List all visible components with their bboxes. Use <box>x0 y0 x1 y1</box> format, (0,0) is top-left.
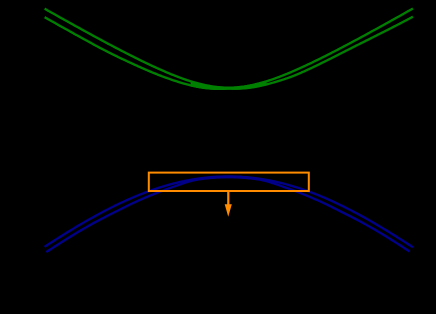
conduction band vertex fused region <box>191 80 267 90</box>
arrow shaft <box>227 192 229 207</box>
valence band outer branch (blue) <box>45 176 413 247</box>
highlight rectangle <box>149 173 309 191</box>
arrow head <box>225 204 232 217</box>
conduction band inner branch (green) <box>45 17 413 89</box>
conduction band outer branch (green) <box>45 9 413 88</box>
valence band inner branch (blue) <box>46 177 409 252</box>
